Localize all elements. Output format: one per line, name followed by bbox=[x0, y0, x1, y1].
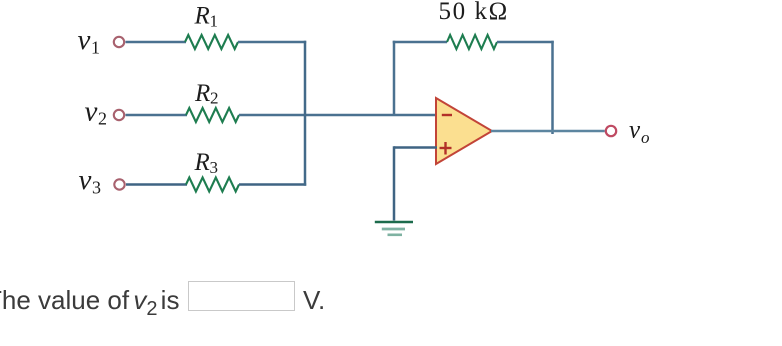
resistor R3 bbox=[186, 178, 239, 192]
label vo bbox=[629, 117, 650, 148]
terminal vo bbox=[606, 126, 616, 136]
label R3 bbox=[194, 149, 219, 177]
question line bbox=[0, 285, 782, 325]
svg-text:o: o bbox=[641, 128, 650, 147]
wire feedback left vertical bbox=[393, 41, 396, 115]
svg-text:R: R bbox=[194, 3, 210, 30]
svg-text:3: 3 bbox=[92, 178, 101, 198]
question text bbox=[0, 285, 179, 321]
label 50 kOhm bbox=[439, 0, 509, 25]
wire R3 to bus bbox=[239, 183, 306, 186]
label v1 bbox=[78, 24, 101, 58]
label R2 bbox=[194, 80, 219, 108]
unit V bbox=[303, 285, 325, 316]
wire R1 to bus bbox=[238, 41, 306, 44]
svg-text:v: v bbox=[79, 164, 92, 196]
svg-text:v: v bbox=[629, 117, 641, 144]
resistor Rf 50k bbox=[447, 35, 497, 49]
resistor R1 bbox=[185, 35, 238, 49]
terminal v1 bbox=[114, 37, 124, 47]
svg-text:3: 3 bbox=[210, 158, 219, 177]
svg-text:2: 2 bbox=[210, 89, 219, 108]
label v3 bbox=[79, 164, 102, 198]
op-amp U1 bbox=[436, 98, 492, 164]
svg-text:v: v bbox=[85, 96, 98, 128]
svg-text:2: 2 bbox=[98, 109, 107, 129]
wire v3 to R3 bbox=[126, 183, 187, 186]
answer input box bbox=[188, 281, 295, 311]
svg-text:R: R bbox=[194, 149, 210, 176]
wire feedback top left bbox=[393, 41, 447, 44]
terminal v2 bbox=[114, 110, 124, 120]
wire R2 to op-amp inverting input bbox=[239, 114, 437, 117]
label v2 bbox=[85, 96, 108, 129]
wire v1 to R1 bbox=[126, 41, 187, 44]
terminal v3 bbox=[114, 179, 124, 189]
wire op-amp noninverting to ground bbox=[394, 146, 437, 220]
label R1 bbox=[194, 3, 219, 31]
wire v2 to R2 bbox=[126, 114, 188, 117]
bus wire (summing node vertical) bbox=[304, 41, 307, 186]
ground bbox=[375, 222, 413, 235]
wire feedback top right bbox=[497, 41, 554, 44]
svg-text:v: v bbox=[78, 24, 91, 56]
resistor R2 bbox=[186, 108, 239, 122]
svg-text:50 kΩ: 50 kΩ bbox=[439, 0, 509, 25]
svg-text:1: 1 bbox=[210, 12, 219, 31]
svg-text:R: R bbox=[194, 80, 210, 107]
wire op-amp output bbox=[491, 130, 605, 133]
svg-text:1: 1 bbox=[91, 38, 100, 58]
wire feedback right vertical bbox=[551, 41, 554, 134]
